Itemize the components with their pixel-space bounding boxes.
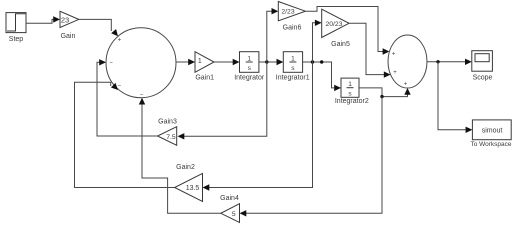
scope Scope [472, 51, 493, 71]
svg-text:Gain3: Gain3 [158, 118, 177, 125]
wire Gain5 to Sum1 mid input [349, 23, 385, 74]
svg-text:Gain1: Gain1 [195, 75, 214, 82]
svg-text:Gain6: Gain6 [283, 25, 302, 32]
svg-text:−: − [109, 61, 113, 67]
wire Gain2 to Sum lower-left input [75, 82, 175, 187]
integrator U2 Integrator1 1/s [283, 52, 302, 73]
wire Sum1 to Scope [427, 61, 466, 63]
gain G1 (1) Gain1 [195, 52, 214, 73]
svg-text:simout: simout [482, 127, 503, 134]
svg-text:Step: Step [9, 36, 24, 43]
svg-text:+: + [404, 81, 408, 87]
wire Gain to Sum [79, 19, 112, 31]
wire Step to Gain [26, 19, 54, 23]
svg-text:Integrator: Integrator [234, 75, 265, 82]
svg-text:−: − [140, 92, 144, 98]
wire branch x1 up to Gain6 [267, 11, 273, 62]
wire branch x2 up to Gain5 [313, 23, 317, 62]
svg-text:+: + [392, 52, 396, 58]
svg-text:s: s [348, 90, 352, 97]
svg-text:7.5: 7.5 [166, 134, 176, 141]
svg-text:5: 5 [232, 211, 236, 218]
wire Integrator1 to Integrator2 [303, 62, 336, 88]
gain G6 (2/23) Gain6 [278, 2, 305, 21]
svg-text:Scope: Scope [473, 75, 493, 82]
sum junction Sum (circle) [106, 28, 176, 98]
integrator U3 Integrator2 1/s [341, 78, 359, 97]
wire Gain6 to Sum1 upper input [305, 7, 383, 52]
svg-text:Gain2: Gain2 [176, 164, 195, 171]
gain G2 (13.5) Gain2 [175, 173, 203, 201]
wire Gain4 to Sum bottom input [142, 102, 221, 213]
gain G5 (20/23) Gain5 [322, 9, 349, 37]
wire branch x3 down to Gain4 [246, 97, 383, 214]
to-workspace block simout [472, 120, 511, 140]
junction node y [436, 60, 439, 63]
junction node x2b [320, 60, 323, 63]
svg-text:1: 1 [247, 55, 251, 62]
svg-text:1: 1 [198, 58, 202, 65]
wire Gain1 to Integrator [214, 61, 234, 63]
wire branch x1 down to Gain3 [184, 62, 267, 136]
svg-text:Integrator2: Integrator2 [335, 98, 369, 105]
svg-text:Gain5: Gain5 [331, 41, 350, 48]
gain G3 (7.5) Gain3 [158, 127, 177, 146]
sum junction Sum1 (ellipse) [388, 35, 427, 88]
gain G (23) [60, 11, 79, 27]
svg-text:+: + [393, 70, 397, 76]
svg-text:Gain: Gain [61, 33, 76, 40]
svg-text:1: 1 [291, 55, 295, 62]
svg-text:To Workspace: To Workspace [470, 141, 511, 148]
svg-text:s: s [248, 65, 252, 72]
svg-text:Integrator1: Integrator1 [276, 75, 310, 82]
svg-text:−: − [118, 83, 122, 89]
wire Integrator2 to Sum1 bottom input [359, 88, 408, 97]
junction node x3 [380, 95, 383, 98]
svg-text:Gain4: Gain4 [220, 195, 239, 202]
svg-text:2/23: 2/23 [281, 9, 294, 16]
gain G4 (5) Gain4 [221, 204, 240, 223]
wire Gain3 to Sum left input [97, 62, 158, 136]
wire branch y down to simout [438, 62, 467, 130]
svg-text:23: 23 [61, 15, 69, 24]
junction node x2 [311, 60, 314, 63]
step source Step [6, 13, 26, 33]
svg-text:1: 1 [348, 81, 352, 88]
wire branch x2 down to Gain2 [209, 62, 313, 188]
integrator U1 Integrator 1/s [240, 52, 259, 73]
junction node x1 [265, 60, 268, 63]
wire Sum to Gain1 [176, 61, 189, 63]
svg-text:s: s [291, 65, 295, 72]
svg-text:20/23: 20/23 [325, 21, 342, 28]
svg-text:13.5: 13.5 [186, 185, 200, 192]
wire Integrator to Integrator1 [259, 61, 278, 63]
svg-text:+: + [118, 38, 122, 44]
